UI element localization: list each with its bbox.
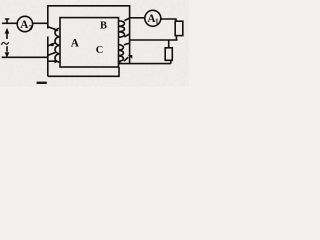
stray caption dash bottom left bbox=[37, 82, 47, 84]
ammeter A2 circle bbox=[17, 16, 32, 31]
AC source tilde bbox=[1, 42, 8, 45]
svg-text:A: A bbox=[71, 37, 80, 49]
winding A bottom lead with arrow bbox=[48, 60, 57, 62]
load R1 bbox=[175, 21, 183, 35]
AC source arrow up bbox=[6, 32, 8, 39]
svg-text:1: 1 bbox=[155, 18, 159, 26]
winding A lower lead bbox=[48, 52, 56, 55]
svg-text:2: 2 bbox=[29, 24, 33, 32]
winding B bottom lead bbox=[124, 34, 129, 37]
svg-text:C: C bbox=[96, 45, 104, 56]
wire A1 to load R1 bbox=[161, 19, 176, 21]
winding A top lead with arrow bbox=[48, 27, 57, 30]
AC source arrow down bbox=[6, 46, 8, 52]
transformer core box bbox=[60, 18, 119, 67]
load R2 top lead bbox=[168, 40, 170, 48]
ammeter A1 circle bbox=[145, 10, 161, 26]
winding C top lead bbox=[124, 43, 130, 45]
wire input bottom lead bbox=[2, 56, 48, 58]
svg-text:B: B bbox=[100, 21, 107, 32]
AC source arrow down head bbox=[5, 52, 10, 58]
wire W2 middle tap bbox=[130, 39, 178, 41]
wire top link (left riser, top run, right riser) bbox=[48, 6, 130, 64]
wire W3 bottom tap bbox=[120, 62, 171, 64]
winding A mid lead with dot bbox=[48, 43, 56, 46]
load R2 bottom lead bbox=[170, 60, 172, 63]
AC source arrow up head bbox=[5, 28, 10, 34]
wire input top lead bbox=[2, 22, 17, 24]
winding A bumps bbox=[55, 28, 60, 62]
wire right bus to ammeter A1 bbox=[130, 17, 145, 19]
winding B bumps bbox=[119, 21, 125, 38]
left bus lower segment bbox=[47, 37, 49, 77]
load R2 bbox=[165, 48, 172, 61]
input terminal tick top bbox=[5, 19, 9, 24]
wire A2 to left bus bbox=[33, 22, 48, 24]
winding B top lead bbox=[124, 18, 129, 21]
load R1 bottom lead bbox=[175, 36, 177, 40]
winding C bottom lead with junction dot bbox=[124, 57, 128, 61]
bottom wire with right riser bbox=[48, 67, 119, 76]
winding C bumps bbox=[119, 45, 124, 62]
